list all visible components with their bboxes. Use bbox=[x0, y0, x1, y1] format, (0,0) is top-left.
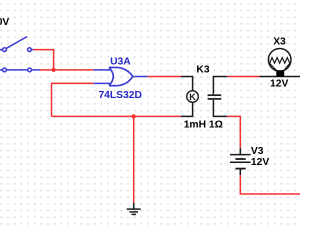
wire lamp base line to right edge bbox=[260, 76, 301, 78]
wire junction to gate input 1 bbox=[54, 69, 94, 71]
lamp X3 bbox=[268, 49, 291, 72]
lamp filament bbox=[270, 58, 290, 64]
switch J2 (bottom, closed) bbox=[0, 68, 40, 72]
OR gate U3A body bbox=[109, 67, 133, 85]
wire gate output to relay bbox=[148, 76, 182, 78]
svg-text:V3: V3 bbox=[251, 146, 264, 157]
svg-text:K3: K3 bbox=[196, 65, 209, 76]
lamp filament legs bbox=[270, 63, 277, 70]
svg-text:1mH 1Ω: 1mH 1Ω bbox=[184, 119, 223, 130]
lamp base bbox=[276, 70, 284, 76]
battery V3 bbox=[230, 148, 251, 175]
wire contact top to lamp bbox=[227, 76, 259, 78]
svg-text:K: K bbox=[189, 92, 196, 102]
switch J1 (top, open) bbox=[0, 37, 34, 52]
svg-text:X3: X3 bbox=[273, 37, 286, 48]
junction A bbox=[52, 68, 56, 72]
relay K3 contact bbox=[208, 77, 228, 117]
svg-text:74LS32D: 74LS32D bbox=[98, 90, 142, 101]
svg-text:U3A: U3A bbox=[110, 57, 131, 68]
op-amp U3A pins bbox=[94, 70, 148, 84]
wire junction B to ground bbox=[133, 116, 135, 203]
wire switch1 to junction bbox=[34, 50, 54, 70]
relay K3 coil lead bottom bbox=[181, 102, 193, 116]
junction B bbox=[132, 114, 136, 118]
wire switch2 to junction bbox=[40, 69, 54, 71]
svg-text:12V: 12V bbox=[270, 79, 288, 90]
ground bbox=[127, 203, 141, 214]
wire contact bottom to battery bbox=[227, 116, 240, 148]
wire feedback loop to gate input 2 bbox=[52, 83, 94, 116]
relay K3 coil lead top bbox=[181, 77, 193, 91]
wire bottom rail bbox=[52, 115, 181, 117]
svg-text:0V: 0V bbox=[0, 17, 9, 28]
wire battery minus to right edge bbox=[240, 175, 300, 194]
svg-text:12V: 12V bbox=[251, 157, 269, 168]
relay K3 coil circle bbox=[187, 91, 199, 103]
